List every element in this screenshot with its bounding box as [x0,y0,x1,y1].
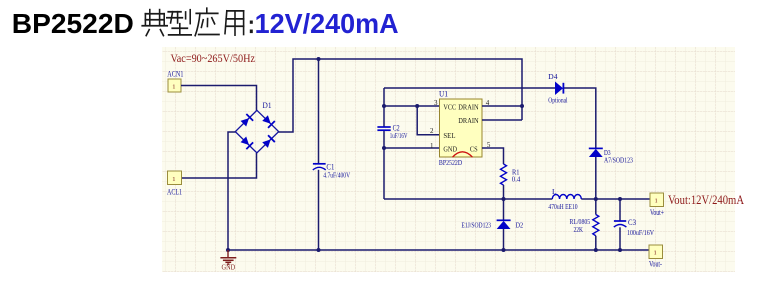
pin number 5 [487,141,491,149]
wire SEL branch [417,106,439,135]
connector ACN1 [167,70,183,93]
red annotation arc under GND pin [453,152,473,157]
pin number 4 [486,99,490,107]
bridge rectifier D1 [235,101,278,153]
wire VCC pin3 [384,105,440,107]
svg-text:3: 3 [434,99,438,107]
junction SEL branch [415,104,419,108]
svg-text:BP2522D: BP2522D [12,8,134,39]
svg-text:ACL1: ACL1 [167,188,182,197]
capacitor C2 [377,123,407,140]
svg-text:ACN1: ACN1 [167,70,183,79]
svg-text:1: 1 [172,176,175,183]
svg-text:D4: D4 [548,72,558,81]
svg-text:GND: GND [443,144,457,153]
junction C1 bottom [317,248,321,252]
connector Vout- [649,245,663,269]
svg-text:DRAIN: DRAIN [458,116,479,125]
schematic sheet background [162,47,735,272]
svg-text:2: 2 [430,127,434,135]
wire switch-node rail with mid rail [384,198,650,200]
wire bottom ground rail [228,249,649,251]
title colon [250,21,253,34]
svg-text:1: 1 [172,84,175,91]
svg-text:4.7uF/400V: 4.7uF/400V [323,171,350,180]
svg-text:E1J/SOD123: E1J/SOD123 [461,221,491,230]
svg-text:VCC: VCC [443,102,456,111]
title text BP2522D [12,8,134,39]
connector Vout+ [650,193,664,217]
svg-text:C3: C3 [628,218,636,227]
title hanzi 应 [195,8,219,35]
resistor RL/0805 22K [570,199,599,250]
pin number 1 [430,142,434,150]
svg-text:470uH EE10: 470uH EE10 [548,202,577,211]
svg-text:DRAIN: DRAIN [458,102,479,111]
junction RL bottom [594,248,598,252]
junction ground [226,248,230,252]
svg-text:1: 1 [654,250,657,257]
wire drain pin [482,119,522,121]
note Vout:12V/240mA [668,192,744,207]
diode D2 [461,199,523,250]
capacitor C3 [614,199,655,250]
svg-text:1: 1 [655,198,658,205]
svg-text:A7/SOD123: A7/SOD123 [604,156,633,165]
capacitor C2 branch wire [383,88,385,199]
junction C3 bottom [618,248,622,252]
svg-text:Optional: Optional [548,96,567,105]
diode D3 [589,148,633,199]
junction C3 top [618,197,622,201]
resistor R1 [501,164,521,185]
capacitor C1 [313,59,351,250]
svg-text:D1: D1 [263,101,272,110]
junction pin1 at C2 branch [382,146,386,150]
inductor L 470uH EE10 [548,187,581,211]
junction C1 top [317,57,321,61]
svg-text:D2: D2 [516,221,524,230]
wire ACL1 to bridge bottom [182,153,257,178]
wire CS pin to R1 [482,148,504,164]
svg-text:GND: GND [222,264,236,272]
junction D2 bottom [502,248,506,252]
title hanzi 型 [167,10,191,35]
svg-text:Vout:12V/240mA: Vout:12V/240mA [668,192,744,207]
note Vac=90~265V/50Hz [171,51,256,65]
junction R1/D2 at rail [502,197,506,201]
junction pin3 at C2 branch [382,104,386,108]
wire bridge right vertex to top rail [279,59,523,132]
pin number 3 [434,99,438,107]
ground symbol GND [220,250,236,272]
title hanzi 用 [225,11,244,35]
op IC U1 BP2522D [439,90,482,168]
svg-text:Vout-: Vout- [649,260,662,269]
junction pin4 drain [520,104,524,108]
wire R1 to output rail [503,185,505,199]
wire bridge left vertex to ground rail [228,132,236,250]
svg-text:CS: CS [470,144,478,153]
svg-text:U1: U1 [439,90,448,99]
wire D4 rail [384,88,596,148]
wire ACN1 to bridge top [181,86,257,112]
svg-text:12V/240mA: 12V/240mA [255,8,399,39]
title text 12V/240mA [255,8,399,39]
svg-text:1uF/16V: 1uF/16V [390,131,408,140]
svg-text:0.4: 0.4 [512,174,521,183]
svg-text:SEL: SEL [443,131,455,140]
svg-text:100uF/16V: 100uF/16V [627,228,654,237]
connector ACL1 [167,171,182,197]
diode D4 (optional) [548,72,567,105]
svg-text:22K: 22K [574,225,584,234]
svg-text:1: 1 [430,142,434,150]
junction D3 at rail [594,197,598,201]
svg-text:BP2522D: BP2522D [439,158,463,167]
pin number 2 [430,127,434,135]
svg-text:Vout+: Vout+ [650,208,664,217]
title hanzi 典 [142,10,167,36]
svg-text:Vac=90~265V/50Hz: Vac=90~265V/50Hz [171,51,256,65]
wire GND pin1 [384,147,440,149]
wire pin4 [482,105,522,107]
